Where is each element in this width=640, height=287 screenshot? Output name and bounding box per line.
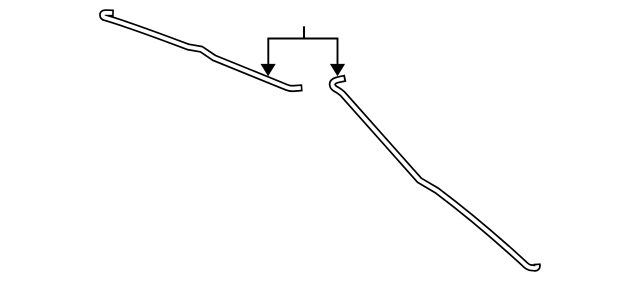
callout drop line to left rod	[267, 39, 269, 65]
callout leader stub (label line, top center)	[303, 26, 305, 38]
part: right rod (weatherstrip retainer, lower-right)	[332, 78, 537, 268]
callout drop line to right rod	[337, 39, 339, 65]
callout bracket (horizontal line)	[267, 38, 338, 40]
arrowhead pointing at right rod	[330, 64, 345, 76]
arrowhead pointing at left rod	[261, 64, 276, 76]
part: left rod (weatherstrip retainer, upper-left)	[103, 13, 303, 89]
